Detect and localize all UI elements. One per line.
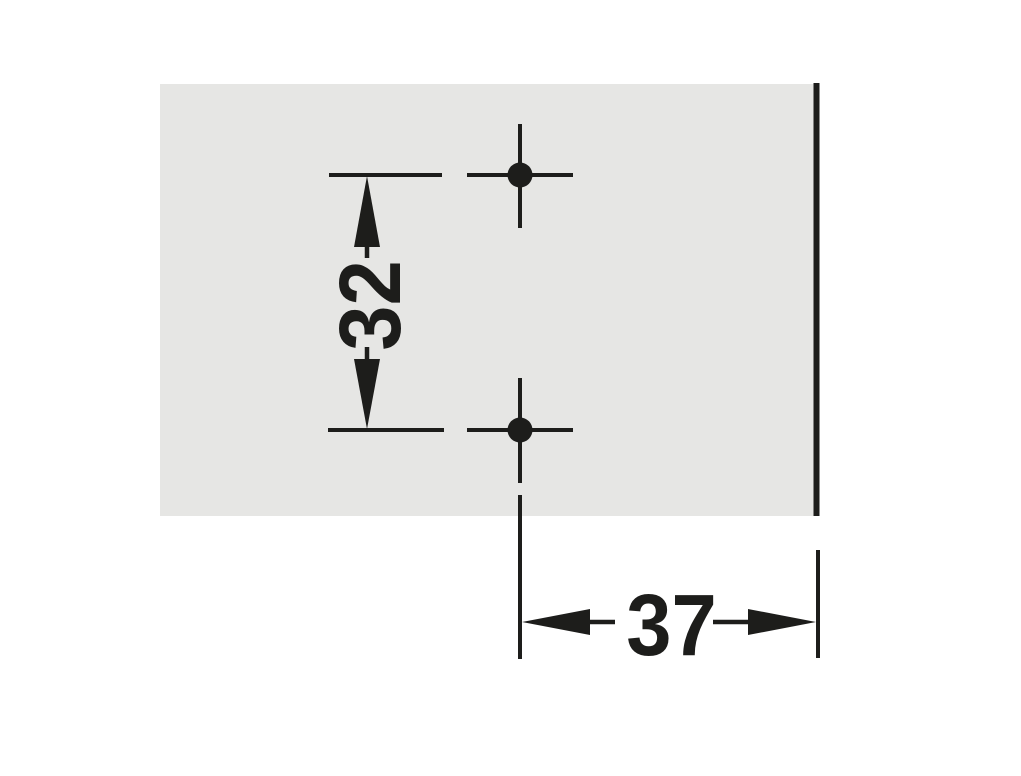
extension line right (panel edge) [816, 550, 820, 658]
panel (grey board surface) [160, 84, 817, 516]
hole H2 dot [508, 418, 533, 443]
dim 37 arrow left [522, 609, 590, 635]
svg-text:37: 37 [626, 576, 716, 673]
hole H2 crosshair horizontal [467, 428, 573, 432]
hole H1 crosshair horizontal [467, 173, 573, 177]
hole H1 crosshair vertical [518, 124, 522, 228]
dim 32 arrow down tail [365, 347, 370, 359]
dim 32 arrow down [354, 359, 380, 429]
dim 32 arrow up [354, 176, 380, 247]
extension line top (dim 32) [329, 173, 442, 177]
panel front edge (thick line) [814, 83, 820, 516]
dim 32 arrow up tail [365, 247, 370, 258]
svg-text:32: 32 [321, 260, 418, 350]
dim 37 arrow right [748, 609, 816, 635]
extension line from hole H2 down [518, 495, 522, 659]
extension line bottom (dim 32) [328, 428, 444, 432]
dim 37 arrow right tail [713, 620, 748, 625]
hole H1 dot [508, 163, 533, 188]
dim 37 arrow left tail [590, 620, 615, 625]
hole H2 crosshair vertical [518, 378, 522, 483]
